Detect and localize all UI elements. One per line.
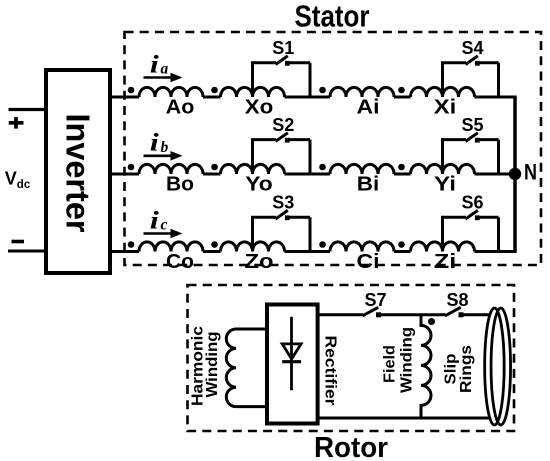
coil Bo [139, 164, 203, 174]
rectifier box [267, 305, 318, 424]
svg-text:V: V [5, 169, 17, 189]
svg-text:i: i [150, 207, 159, 235]
svg-text:i: i [150, 51, 159, 79]
slip ring 1 [485, 308, 505, 425]
svg-text:Winding: Winding [204, 332, 221, 398]
coil Zo [221, 242, 285, 252]
polarity dot Zo [211, 241, 218, 248]
coil Ai [330, 87, 394, 97]
switch S3 bypass [251, 210, 310, 251]
svg-text:S5: S5 [461, 115, 483, 135]
svg-text:Yo: Yo [245, 173, 273, 196]
coil Zi [411, 242, 475, 252]
wire phase b [110, 173, 517, 176]
coil Yi [411, 164, 475, 174]
polarity dot Yo [211, 164, 218, 171]
coil Bi [330, 164, 394, 174]
field winding coil [421, 315, 431, 418]
svg-text:Zo: Zo [245, 250, 274, 273]
polarity dot field winding [428, 318, 435, 325]
current ia arrow [144, 76, 173, 79]
svg-text:Inverter: Inverter [60, 114, 97, 233]
rotor bottom wire [318, 417, 491, 420]
svg-text:Slip: Slip [443, 353, 460, 384]
rotor top wire [318, 313, 491, 316]
stator dashed box [125, 32, 542, 265]
svg-text:Stator: Stator [295, 0, 370, 34]
svg-text:Zi: Zi [434, 250, 457, 273]
polarity dot Ai [319, 87, 326, 94]
inverter U1 box [46, 70, 110, 273]
polarity dot Xo [211, 87, 218, 94]
svg-text:S3: S3 [272, 193, 294, 213]
terminal plus [9, 117, 24, 129]
diode D1 [282, 317, 301, 391]
neutral bus wire [513, 97, 517, 252]
switch S7 [363, 307, 379, 316]
switch S8 [445, 307, 461, 316]
svg-text:S4: S4 [461, 38, 483, 58]
polarity dot Yi [398, 164, 405, 171]
switch S4 bypass [441, 56, 499, 97]
svg-text:Ai: Ai [357, 96, 380, 119]
coil Ci [330, 242, 394, 252]
svg-text:Ao: Ao [166, 96, 195, 119]
svg-text:Yi: Yi [434, 173, 456, 196]
switch S1 bypass [251, 56, 310, 97]
current ib arrow [144, 155, 173, 158]
terminal minus [12, 240, 25, 244]
svg-text:Rings: Rings [458, 345, 475, 393]
svg-text:Xo: Xo [245, 96, 274, 119]
svg-text:Co: Co [166, 250, 194, 273]
wire dc negative [8, 250, 44, 253]
svg-text:S8: S8 [446, 290, 468, 310]
svg-text:S7: S7 [364, 290, 386, 310]
coil Co [139, 242, 203, 252]
polarity dot Bo [128, 164, 135, 171]
node N [509, 168, 521, 180]
svg-text:Rotor: Rotor [314, 432, 388, 461]
coil Xi [411, 87, 475, 97]
switch S6 bypass [441, 210, 499, 251]
wire phase a [110, 96, 517, 99]
svg-text:N: N [524, 160, 537, 185]
svg-text:c: c [161, 217, 168, 234]
svg-text:dc: dc [17, 179, 31, 191]
svg-text:Winding: Winding [398, 327, 415, 393]
coil Xo [221, 87, 285, 97]
svg-text:a: a [161, 61, 169, 78]
svg-text:Bi: Bi [357, 173, 380, 196]
current ic arrow [144, 232, 173, 235]
coil Ao [139, 87, 203, 97]
polarity dot Ao [128, 87, 135, 94]
polarity dot Zi [398, 241, 405, 248]
coil Yo [221, 164, 285, 174]
polarity dot Ci [319, 241, 326, 248]
wire dc positive [9, 108, 45, 111]
svg-text:i: i [150, 129, 159, 157]
svg-text:Bo: Bo [166, 173, 194, 196]
svg-text:Rectifier: Rectifier [322, 336, 339, 406]
svg-text:S6: S6 [461, 193, 483, 213]
harmonic winding coil [226, 329, 266, 407]
svg-text:Ci: Ci [357, 250, 380, 273]
svg-text:b: b [161, 139, 169, 156]
polarity dot Bi [319, 164, 326, 171]
switch S2 bypass [251, 133, 310, 174]
svg-text:S1: S1 [272, 38, 294, 58]
svg-text:Xi: Xi [434, 96, 457, 119]
slip ring 2 [491, 308, 511, 425]
svg-text:Field: Field [382, 345, 399, 383]
polarity dot Xi [398, 87, 405, 94]
switch S5 bypass [441, 133, 499, 174]
svg-text:S2: S2 [272, 115, 294, 135]
wire phase c [110, 250, 517, 253]
rotor dashed box [188, 285, 515, 431]
polarity dot Co [128, 241, 135, 248]
